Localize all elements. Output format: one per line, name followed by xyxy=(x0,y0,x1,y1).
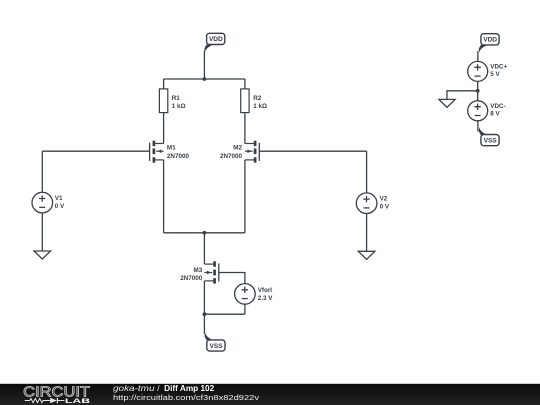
transistor M3 2N7000 (mirrored) xyxy=(180,261,219,283)
wire M3 gate to Vforl xyxy=(219,273,245,284)
svg-text:V2: V2 xyxy=(380,195,388,202)
svg-text:0 V: 0 V xyxy=(380,203,390,210)
node tail junction xyxy=(203,231,207,235)
svg-text:5 V: 5 V xyxy=(490,71,500,78)
svg-text:R2: R2 xyxy=(253,95,262,102)
wire M1 gate xyxy=(42,150,149,152)
wire junction to ground xyxy=(447,91,478,100)
svg-text:M1: M1 xyxy=(167,145,176,152)
wire VDD flag to VDC+ xyxy=(477,51,479,62)
svg-text:VDC+: VDC+ xyxy=(490,63,507,70)
voltage source VDC- xyxy=(468,101,506,121)
svg-text:Vforl: Vforl xyxy=(258,287,273,294)
voltage source V1 xyxy=(32,192,65,213)
transistor M1 2N7000 xyxy=(150,141,190,163)
wire V1 to gate rail xyxy=(41,151,43,192)
svg-text:VSS: VSS xyxy=(210,343,224,350)
wire top rail to R1 xyxy=(163,79,165,89)
wire Vforl bottom xyxy=(244,304,246,314)
node mid junction xyxy=(476,89,480,93)
svg-text:M2: M2 xyxy=(233,145,242,152)
resistor R2 xyxy=(241,89,267,113)
wire R2 to M2 drain xyxy=(244,113,246,144)
footer bar xyxy=(0,384,540,405)
wire V1 to ground xyxy=(41,213,43,251)
ground (right) xyxy=(439,99,455,107)
svg-text:8 V: 8 V xyxy=(490,111,500,118)
svg-text:Diff Amp 102: Diff Amp 102 xyxy=(164,384,214,393)
svg-text:VDD: VDD xyxy=(483,37,497,44)
voltage source VDC+ xyxy=(468,61,508,81)
svg-text:R1: R1 xyxy=(172,95,181,102)
wire M3 source down to VSS xyxy=(203,281,205,334)
svg-text:VSS: VSS xyxy=(484,137,498,144)
wire R1 to M1 drain xyxy=(163,113,165,144)
svg-text:1 kΩ: 1 kΩ xyxy=(172,103,186,110)
svg-text:2.3 V: 2.3 V xyxy=(258,295,274,302)
wire top rail xyxy=(164,78,245,80)
voltage source Vforl xyxy=(235,284,274,305)
wire tail bus xyxy=(164,232,245,234)
wire VDD flag to top rail xyxy=(203,51,205,80)
net flag VDD (top center) xyxy=(204,33,224,52)
svg-text:2N7000: 2N7000 xyxy=(180,275,203,282)
wire M1 source down xyxy=(163,160,165,233)
wire M2 gate xyxy=(259,150,366,152)
logo wire resistor diode xyxy=(25,398,65,404)
svg-text:1 kΩ: 1 kΩ xyxy=(253,103,267,110)
node junction on top rail xyxy=(203,77,207,81)
wire V2 to gate rail xyxy=(366,151,368,193)
wire V2 to ground xyxy=(366,214,368,252)
net flag VSS (right column) xyxy=(479,127,499,145)
wire VDC- to VSS flag xyxy=(477,121,479,132)
transistor M2 2N7000 (mirrored) xyxy=(220,141,259,163)
voltage source V2 xyxy=(356,193,390,214)
svg-text:goka-tmu: goka-tmu xyxy=(113,384,155,393)
wire bottom return xyxy=(204,313,245,315)
ground (V2) xyxy=(358,251,375,259)
resistor R1 xyxy=(159,89,185,113)
svg-text:V1: V1 xyxy=(55,195,63,202)
wire top rail to R2 xyxy=(244,79,246,89)
svg-text:2N7000: 2N7000 xyxy=(220,153,243,160)
wire VDC+ to VDC- xyxy=(477,81,479,100)
svg-text:VDC-: VDC- xyxy=(490,103,505,110)
svg-text:http://circuitlab.com/cf3n8x82: http://circuitlab.com/cf3n8x82d922v xyxy=(113,393,259,402)
ground (V1) xyxy=(34,251,51,259)
svg-text:VDD: VDD xyxy=(209,36,223,43)
node bottom junction xyxy=(203,312,207,316)
svg-text:2N7000: 2N7000 xyxy=(167,153,190,160)
svg-text:LAB: LAB xyxy=(65,398,91,405)
net flag VSS (bottom center) xyxy=(204,333,225,352)
svg-text:M3: M3 xyxy=(194,267,203,274)
wire tail junction to M3 drain xyxy=(203,233,205,264)
net flag VDD (right column) xyxy=(479,34,499,53)
wire M2 source down xyxy=(244,160,246,233)
svg-text:0 V: 0 V xyxy=(55,203,65,210)
